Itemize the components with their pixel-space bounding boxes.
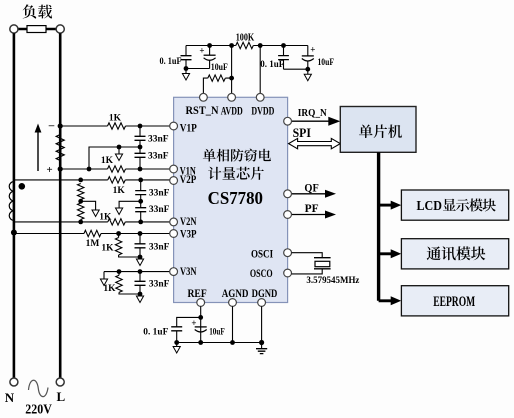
wire V1N row	[60, 168, 170, 170]
capacitor 10uF (DVDD)	[307, 46, 309, 70]
node V3P/R	[116, 231, 121, 236]
svg-text:0. 1uF: 0. 1uF	[143, 327, 168, 337]
capacitor 0.1uF (REF)	[171, 327, 182, 331]
svg-text:N: N	[5, 390, 15, 405]
svg-text:AGND: AGND	[222, 286, 249, 300]
label 负载 (load)	[23, 4, 37, 18]
svg-text:IRQ_N: IRQ_N	[298, 107, 327, 119]
wire AVDD caps bottom	[186, 68, 210, 70]
current direction arrow	[37, 132, 39, 172]
wire REF branch left	[177, 317, 201, 326]
svg-text:LCD: LCD	[417, 198, 443, 213]
wire ground rail	[177, 342, 262, 344]
wire DVDD caps bottom	[284, 68, 308, 70]
node REF branch	[198, 315, 203, 320]
wire V1P row	[60, 125, 170, 127]
svg-text:REF: REF	[187, 286, 206, 300]
wire IRQ_N arrow	[292, 120, 329, 122]
capacitor 33nF (V2 upper)	[140, 180, 142, 201]
svg-text:1K: 1K	[99, 213, 112, 223]
svg-text:V2P: V2P	[180, 172, 197, 186]
pin QF	[284, 190, 292, 198]
wire PF arrow	[292, 214, 326, 216]
svg-text:10uF: 10uF	[209, 327, 225, 337]
wire chain mid to ground	[81, 201, 96, 205]
wire N rail	[13, 33, 16, 378]
pin RST_N	[200, 93, 208, 101]
capacitor 10uF (AVDD)	[207, 43, 212, 48]
capacitor 33nF (V2 lower)	[140, 201, 142, 222]
op-chip CS7780 body	[174, 97, 288, 302]
svg-text:0. 1uF: 0. 1uF	[260, 60, 284, 70]
wire DVDD drop	[259, 46, 261, 94]
wire AVDD drop	[231, 46, 233, 94]
ground (V3P)	[139, 257, 141, 260]
resistor 1M (V3P)	[84, 230, 101, 236]
svg-text:L: L	[56, 389, 65, 404]
svg-text:1M: 1M	[86, 239, 100, 249]
pin REF	[197, 299, 205, 307]
pin IRQ_N	[284, 117, 292, 125]
wire QF arrow	[292, 193, 326, 195]
pin V1P	[170, 122, 178, 130]
svg-text:DGND: DGND	[252, 286, 278, 300]
resistor 1K (V1P)	[108, 123, 126, 129]
svg-text:1K: 1K	[109, 114, 122, 124]
capacitor 33nF (V3P)	[139, 234, 141, 258]
box 通讯模块	[401, 239, 508, 269]
resistor 1K (V2N)	[108, 219, 126, 225]
pin AGND	[229, 299, 237, 307]
node V3N gnd	[138, 292, 143, 297]
node V3N/cap	[138, 269, 143, 274]
svg-text:33nF: 33nF	[148, 152, 169, 162]
svg-text:V3P: V3P	[180, 226, 197, 240]
resistor 1K (V3P shunt)	[119, 234, 140, 258]
burden resistor upper (chain)	[78, 184, 84, 200]
wire V2P row	[14, 179, 170, 181]
pin OSCI	[284, 249, 292, 257]
ground (V2 mid)	[118, 203, 120, 209]
ground (REF rail)	[176, 343, 178, 348]
svg-text:1K: 1K	[113, 186, 126, 196]
current transformer secondary coil	[9, 182, 14, 221]
svg-text:PF: PF	[305, 201, 319, 215]
wire arrow to comm module	[379, 252, 392, 255]
SPI double arrow	[289, 138, 341, 148]
wire V3P row	[14, 233, 170, 235]
svg-text:+: +	[310, 45, 315, 55]
resistor 1K (V2P)	[108, 177, 126, 183]
ground (DVDD caps)	[307, 69, 309, 75]
pin DVDD	[256, 93, 264, 101]
pin PF	[284, 211, 292, 219]
svg-text:QF: QF	[304, 180, 318, 194]
pin DGND	[258, 299, 266, 307]
wire load top	[18, 28, 57, 31]
node V3P gnd	[138, 255, 143, 260]
svg-text:EEPROM: EEPROM	[433, 294, 475, 310]
wire arrow to EEPROM	[379, 299, 392, 302]
wire V1 mid tie	[89, 147, 140, 169]
chip title 计量芯片	[208, 167, 221, 180]
node V1P/C1	[138, 124, 143, 129]
svg-text:33nF: 33nF	[149, 189, 170, 199]
wire arrow to LCD	[379, 204, 392, 207]
capacitor 33nF (V1 upper)	[139, 126, 141, 147]
chip title 单相防窃电	[203, 149, 216, 162]
wire V3N left drop	[103, 272, 105, 277]
terminal circle load right	[56, 25, 64, 33]
terminal circle N	[10, 378, 18, 386]
burden resistor lower (chain)	[78, 203, 84, 220]
svg-text:+: +	[46, 164, 52, 176]
node V2N/cap	[138, 220, 143, 225]
node V2 cap mid	[138, 199, 143, 204]
node L lower (plus)	[58, 166, 63, 171]
capacitor 33nF (V1 lower)	[139, 147, 141, 169]
svg-text:OSCO: OSCO	[250, 266, 273, 280]
svg-text:AVDD: AVDD	[221, 104, 243, 118]
wire V2 mid to ground	[119, 201, 141, 203]
pin V2P	[170, 177, 178, 185]
node AVDD rail	[229, 43, 234, 48]
resistor 1K (V1N)	[108, 166, 126, 172]
pin AVDD	[228, 93, 236, 101]
terminal circle load left	[10, 25, 18, 33]
MCU box 单片机	[340, 107, 416, 153]
wire V2N row	[14, 221, 170, 223]
junction chain bottom	[78, 220, 83, 225]
wire AGND drop	[232, 306, 234, 342]
capacitor 33nF (V3N)	[139, 272, 141, 294]
pin V2N	[170, 218, 178, 226]
svg-text:OSCI: OSCI	[251, 246, 273, 260]
node L upper (minus)	[58, 123, 63, 128]
wire OSCI to crystal	[292, 253, 323, 258]
svg-text:0. 1uF: 0. 1uF	[160, 57, 182, 67]
resistor 1K (V3N)	[119, 272, 140, 294]
wire DGND drop	[261, 306, 263, 342]
svg-text:1K: 1K	[101, 156, 114, 166]
node N rail / 1M junction	[11, 230, 17, 236]
junction chain top	[78, 178, 83, 183]
svg-text:33nF: 33nF	[149, 205, 170, 215]
ground (V3N left)	[103, 277, 105, 280]
earth ground (DGND)	[261, 343, 263, 349]
svg-text:3.579545MHz: 3.579545MHz	[306, 276, 360, 286]
ground (AVDD caps)	[185, 69, 187, 75]
capacitor 10uF (REF)	[195, 326, 207, 328]
junction V1N left	[87, 167, 92, 172]
ground (chain mid)	[95, 205, 97, 211]
box LCD 显示模块	[401, 190, 508, 220]
AC source sine	[29, 380, 49, 396]
capacitor 0.1uF (DVDD)	[281, 43, 286, 48]
svg-text:10uF: 10uF	[211, 63, 228, 73]
node V2P/cap	[138, 178, 143, 183]
wire MCU bus	[377, 152, 380, 300]
terminal circle L	[56, 378, 64, 386]
crystal X1	[314, 257, 331, 259]
node V1 cap mid	[138, 145, 143, 150]
node RST/AVDD	[229, 76, 234, 81]
svg-text:33nF: 33nF	[149, 243, 170, 253]
svg-text:33nF: 33nF	[148, 135, 169, 145]
svg-text:1K: 1K	[101, 244, 114, 254]
resistor RST pull-up	[203, 78, 231, 93]
svg-text:–: –	[48, 119, 55, 131]
wire REF drop	[200, 306, 202, 342]
svg-text:33nF: 33nF	[149, 280, 170, 290]
svg-text:DVDD: DVDD	[251, 104, 274, 118]
svg-text:1K: 1K	[103, 284, 116, 294]
capacitor 0.1uF (AVDD)	[185, 46, 187, 69]
svg-text:10uF: 10uF	[318, 58, 335, 68]
node DVDD rail	[258, 43, 263, 48]
pin V3N	[170, 268, 178, 276]
pin V1N	[170, 165, 178, 173]
svg-text:+: +	[191, 318, 196, 328]
wire V3N row	[104, 271, 170, 273]
resistor 100K	[236, 42, 254, 48]
node V3N/R	[117, 269, 122, 274]
pin V3P	[170, 230, 178, 238]
shunt resistor on L rail	[56, 135, 64, 161]
svg-text:220V: 220V	[25, 402, 52, 417]
svg-text:100K: 100K	[236, 32, 255, 43]
svg-text:V3N: V3N	[180, 264, 197, 278]
svg-text:CS7780: CS7780	[208, 188, 264, 208]
ground (V3N)	[139, 294, 141, 297]
svg-text:+: +	[199, 46, 204, 56]
CT polarity dot	[19, 183, 26, 190]
node V3P/cap	[138, 231, 143, 236]
node chain mid	[78, 199, 83, 204]
fuse (load)	[27, 26, 46, 33]
wire OSCO to crystal	[292, 269, 323, 274]
pin OSCO	[284, 269, 292, 277]
wire L rail	[59, 33, 62, 378]
svg-text:RST_N: RST_N	[186, 103, 219, 117]
ground (V1 mid)	[117, 145, 122, 150]
svg-text:V1P: V1P	[180, 120, 197, 134]
svg-text:SPI: SPI	[293, 126, 311, 140]
wire AVDD top rail	[186, 45, 308, 47]
box EEPROM	[401, 286, 508, 316]
